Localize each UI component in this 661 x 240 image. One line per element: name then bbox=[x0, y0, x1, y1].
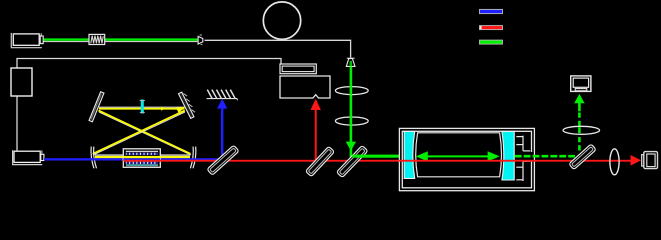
laser L2 aperture bbox=[41, 154, 44, 160]
green beam segments over lenses bbox=[350, 86, 353, 95]
EOM driver (double box) bbox=[280, 64, 316, 74]
bow-tie bottom yellow beam bbox=[95, 154, 190, 156]
right green arrowhead bbox=[488, 151, 500, 161]
monitor box bbox=[280, 76, 330, 98]
green beam to cavity bbox=[353, 155, 405, 158]
bow-tie yellow beam top white companion bbox=[99, 106, 185, 108]
yellow arrow on diagonal bbox=[176, 104, 186, 113]
PZT bracket bbox=[516, 136, 530, 181]
blue up arrowhead bbox=[217, 99, 227, 109]
red output arrowhead bbox=[631, 155, 642, 166]
PPLN top inner line bbox=[126, 150, 158, 152]
legend green bbox=[480, 40, 503, 44]
intracavity green standing wave bbox=[424, 155, 492, 157]
red up arrowhead bbox=[311, 99, 321, 110]
green dashed leakage beam bbox=[515, 155, 576, 158]
bow-tie diagonal 2 bbox=[93, 111, 185, 154]
bow-tie curved mirror M4 (bottom-right) bbox=[190, 147, 193, 169]
PPLN poling row lower bbox=[126, 162, 158, 165]
lens LV1 bbox=[335, 87, 368, 95]
laser L2 (blue) body bbox=[14, 151, 40, 162]
beam port gap in enclosure wall bbox=[531, 152, 534, 160]
fiber line bbox=[205, 40, 351, 57]
blue vertical beam bbox=[221, 109, 223, 160]
bow-tie mirror M2 (top-right) bbox=[178, 91, 196, 119]
legend blue bbox=[480, 9, 503, 13]
fiber coupler FC1 bbox=[198, 36, 203, 44]
photodetector (monitor icon) bbox=[571, 76, 591, 92]
green dashed vertical to PD bbox=[578, 111, 581, 151]
green down arrowhead bbox=[346, 142, 356, 151]
fiber spool bbox=[263, 2, 300, 39]
wire control box to blue laser bbox=[16, 96, 18, 151]
laser L2 (blue) shadow bbox=[13, 150, 43, 164]
beam dump (hatched) bbox=[207, 90, 238, 101]
PPLN waveguide cyan line bbox=[126, 164, 158, 166]
lens LV2 bbox=[335, 117, 368, 125]
cavity mirror CM2 (right, cyan) bbox=[502, 131, 514, 180]
isolator zigzag bbox=[91, 36, 103, 44]
red detector icon bbox=[642, 155, 644, 166]
yellow arrow on top beam bbox=[161, 107, 165, 111]
green beam white companion bbox=[44, 41, 198, 43]
laser L1 (green) body bbox=[13, 34, 39, 45]
bow-tie diagonal 2 white companion bbox=[93, 112, 185, 155]
wire from control box to EOM driver bbox=[17, 59, 281, 69]
pickoff mirror MB (red up) bbox=[305, 146, 334, 176]
dichroic mirror MA (blue up) bbox=[207, 145, 239, 175]
laser L1 (green) shadow bbox=[11, 33, 42, 48]
green dash over lens LV3 bbox=[578, 127, 581, 133]
optical isolator box bbox=[89, 34, 105, 44]
fiber coupler FC2 bbox=[347, 57, 355, 59]
control box bbox=[11, 68, 32, 96]
dichroic mirror MC (green right) bbox=[336, 145, 367, 177]
legend red bbox=[480, 26, 503, 30]
red beam redraw through cavity bbox=[399, 160, 535, 162]
left green arrowhead bbox=[416, 151, 428, 161]
green vertical beam bbox=[350, 66, 353, 157]
PPLN poling row upper bbox=[126, 153, 158, 155]
cavity enclosure bbox=[399, 128, 534, 190]
green up arrowhead bbox=[574, 94, 584, 103]
bow-tie mirror M1 (top-left) bbox=[89, 92, 104, 122]
bow-tie yellow beam top bbox=[99, 108, 185, 110]
etalon (cyan) on top beam bbox=[141, 100, 144, 114]
cavity mode envelope bbox=[416, 133, 502, 177]
bow-tie diagonal 1 bbox=[99, 111, 191, 154]
red beam main bbox=[124, 160, 633, 162]
PPLN crystal box bbox=[123, 149, 160, 168]
splitter MD bbox=[569, 144, 596, 170]
red beam over output lens bbox=[611, 160, 619, 162]
blue beam laser to dichroic bbox=[44, 158, 223, 160]
green beam laser to fiber coupler bbox=[44, 38, 198, 40]
bow-tie curved mirror M3 (bottom-left) bbox=[91, 147, 94, 169]
yellow beam inside crystal (redraw over rows) bbox=[123, 156, 160, 158]
lens LV3 bbox=[563, 126, 600, 134]
cavity mirror CM1 (left, cyan) bbox=[404, 131, 415, 178]
lens on red output bbox=[610, 149, 619, 175]
bow-tie diagonal 1 white companion bbox=[99, 112, 191, 155]
laser L1 aperture bbox=[40, 36, 43, 44]
blue beam inside crystal bbox=[123, 158, 160, 160]
red vertical beam bbox=[315, 110, 317, 161]
